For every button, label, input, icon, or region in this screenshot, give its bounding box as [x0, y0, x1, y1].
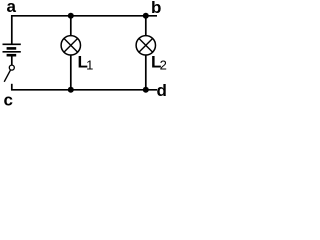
node junction dot top L2 — [143, 13, 149, 19]
node junction dot bottom L2 — [143, 87, 149, 93]
wire top rail a-b — [11, 15, 157, 17]
lamp L1 — [61, 36, 80, 55]
wire top rail to lamp L2 — [145, 16, 147, 36]
node junction dot bottom L1 — [68, 87, 74, 93]
wire bottom rail c-d — [11, 89, 157, 91]
battery B1 (two cells) — [3, 44, 21, 55]
wire top rail to lamp L1 — [70, 16, 72, 36]
wire lamp L1 to bottom rail — [70, 55, 72, 90]
svg-text:c: c — [4, 91, 13, 110]
lamp L2 — [136, 36, 155, 55]
wire switch to node c — [11, 84, 13, 90]
wire battery to switch — [11, 56, 13, 66]
svg-text:b: b — [151, 0, 161, 17]
svg-text:a: a — [7, 0, 17, 16]
switch S1 (open) — [4, 65, 14, 82]
wire left from node a to battery — [11, 15, 13, 44]
wire lamp L2 to bottom rail — [145, 55, 147, 90]
svg-text:d: d — [157, 81, 167, 100]
node junction dot top L1 — [68, 13, 74, 19]
